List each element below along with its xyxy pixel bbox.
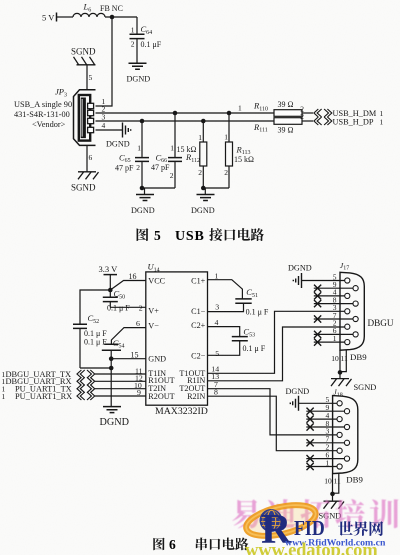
wire J18 shell pins 10 11 [324, 473, 363, 501]
ground DGND at USB pin 4 [106, 123, 131, 149]
inductor L6 [73, 2, 105, 18]
wire ground rail C65-C66 [140, 186, 175, 195]
capacitor C65 [115, 121, 149, 188]
signal PU_UART1_TX pin 10 [2, 381, 146, 394]
wire R110 to USB_H_DM [302, 112, 313, 114]
watermark globe [260, 509, 283, 532]
ground SGND below J18 [319, 501, 345, 520]
wire J18 pin 5 to DGND [299, 402, 337, 404]
ground DGND serial [100, 407, 129, 428]
watermark RFID text [261, 507, 325, 553]
connector USB_H_DM [314, 109, 384, 118]
wire 5V to L6 [57, 16, 73, 18]
wire USB pin 5 to SGND [87, 65, 93, 90]
signal DBGU_UART_TX pin 11 [2, 366, 146, 379]
wire J17 shell pins 10 11 [331, 350, 367, 379]
node FB NC [100, 4, 123, 19]
wire L6 to C64 branch [105, 16, 137, 18]
junction C65 on D+ [140, 119, 145, 124]
capacitor C64 [130, 17, 162, 63]
capacitor C54 [84, 338, 124, 359]
capacitor C66 [151, 113, 182, 188]
power 3.3V terminal [99, 264, 119, 290]
wire R111 to USB_H_DP [302, 120, 313, 122]
wire VCC pin 16 [110, 272, 146, 290]
chip U14 MAX3232ID [146, 262, 208, 418]
connector J18 DB9 [306, 389, 358, 474]
caption figure 6 [153, 537, 248, 552]
wire ground rail R112-R113 [201, 186, 229, 195]
ground SGND below J17 [331, 379, 376, 392]
junction R113 on D- [227, 111, 232, 116]
ground DGND at J18 pin 5 [286, 387, 310, 411]
wire GND pin 15 [109, 351, 146, 361]
capacitor C50 [103, 289, 125, 308]
connector J17 DB9 DBGU [314, 261, 394, 350]
resistor R110 39ohm [238, 100, 304, 116]
ground DGND at J17 pin 5 [288, 263, 312, 288]
wire R1IN pin 13 to J17 pin 2 [208, 327, 345, 381]
wire D- net (USB pin 2 to R110) [96, 112, 275, 114]
wire 3.3V node to C52 [80, 290, 110, 324]
resistor R113 [224, 113, 254, 188]
connector JP3 USB_A [14, 87, 106, 146]
watermark shijiewang characters [338, 521, 353, 535]
connector USB_H_DP [314, 117, 384, 126]
ground SGND below USB pin 6 [71, 172, 99, 193]
signal PU_UART1_RX pin 9 [2, 388, 146, 401]
wire C52/C54 ground run [80, 359, 113, 407]
wire D+ net (USB pin 3 to R111) [96, 120, 275, 122]
wire T1OUT pin 14 to J17 pin 3 [208, 311, 345, 373]
capacitor C52 [73, 313, 107, 368]
wire V- pin 6 [111, 319, 145, 344]
resistor R111 39ohm [253, 112, 304, 135]
wire T2OUT pin 7 to J18 pin 3 [208, 380, 338, 435]
watermark halftone characters [232, 499, 398, 528]
ground SGND above USB pin 5 [71, 47, 96, 65]
ground DGND below C64 [127, 63, 151, 83]
capacitor C51 with pins 1,3 [208, 271, 269, 316]
caption figure 5 [137, 228, 264, 244]
junction R112 on D+ [201, 119, 206, 124]
node 3.3V junction [108, 288, 113, 293]
signal DBGU_UART_RX pin 12 [2, 373, 146, 386]
wire R2IN pin 8 to J18 pin 2 [208, 388, 338, 451]
wire FB node down to USB pin 1 [96, 17, 113, 106]
wire USB pin 4 to DGND [96, 129, 123, 131]
wire V+ pin 2 [107, 304, 146, 313]
ground DGND rail 1 [131, 195, 155, 216]
resistor R112 [177, 121, 207, 188]
wire USB pin 6 to SGND [87, 145, 93, 171]
ground DGND rail 2 [191, 195, 215, 216]
watermark orange ring logo [246, 502, 315, 539]
capacitor C53 with pins 4,5 [208, 318, 266, 358]
junction C66 on D- [173, 111, 178, 116]
power 5V terminal [42, 13, 57, 23]
wire J17 pin 5 to DGND [302, 280, 345, 282]
